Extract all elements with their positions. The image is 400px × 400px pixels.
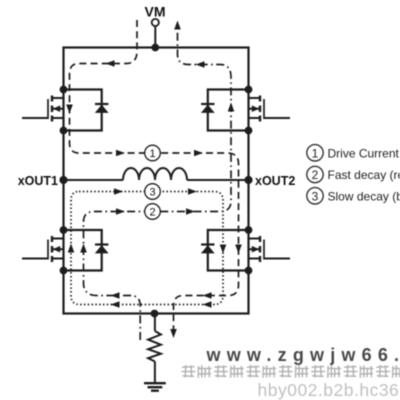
svg-text:1: 1: [149, 148, 155, 160]
svg-text:xOUT1: xOUT1: [18, 174, 58, 188]
node Q2 source dot: [245, 127, 253, 135]
ground: [144, 383, 166, 391]
svg-text:2: 2: [149, 207, 155, 219]
node xOUT1 dot: [59, 176, 67, 184]
transistor Q2 (upper-right NMOS): [249, 96, 291, 122]
node Q3 source dot: [60, 267, 68, 275]
wire path 3 slow decay loop (dotted): [71, 192, 223, 305]
wire resistor to ground: [154, 362, 156, 384]
svg-text:Slow decay (brake): Slow decay (brake): [328, 189, 400, 203]
svg-text:www.zgwjw66.: www.zgwjw66.: [206, 345, 400, 365]
node label circled 3 on slow decay path: [145, 184, 161, 200]
node bottom-center junction: [151, 310, 159, 318]
svg-text:xOUT2: xOUT2: [255, 174, 295, 188]
node xOUT2 dot: [244, 176, 252, 184]
node Q4 drain dot: [245, 226, 253, 234]
svg-text:VM: VM: [145, 4, 166, 20]
H-bridge outer box wire: [64, 48, 249, 314]
svg-text:hby002.b2b.hc360: hby002.b2b.hc360: [258, 380, 400, 400]
legend item 3: [307, 188, 323, 204]
svg-text:3: 3: [312, 189, 319, 203]
wire xOUT1 to winding: [64, 179, 124, 181]
svg-text:Drive Current: Drive Current: [328, 146, 400, 160]
diode D4 body-diode loop (lower-right): [208, 230, 249, 271]
node Q1 source dot: [60, 127, 68, 135]
svg-text:2: 2: [312, 168, 319, 182]
diode D1 body-diode loop (upper-left): [64, 90, 102, 131]
resistor Rsense: [148, 331, 161, 362]
wire path 1 drive current (dashed): [70, 20, 239, 330]
node Q2 drain dot: [245, 86, 253, 94]
diode D2 body-diode loop (upper-right): [208, 90, 249, 131]
inductor L1 motor winding: [123, 168, 187, 180]
legend item 1: [307, 145, 323, 161]
svg-text:3: 3: [149, 187, 155, 199]
node label circled 2 on fast decay path: [145, 204, 161, 220]
transistor Q4 (lower-right NMOS): [249, 236, 291, 262]
svg-text:Fast decay (reverse): Fast decay (reverse): [328, 168, 400, 182]
legend item 2: [307, 166, 323, 182]
node Q3 drain dot: [60, 226, 68, 234]
node Q4 source dot: [245, 267, 253, 275]
diode D3 body-diode loop (lower-left): [64, 230, 102, 271]
VM terminal circle: [152, 19, 159, 26]
wire winding to xOUT2: [187, 179, 249, 181]
svg-text:1: 1: [312, 146, 319, 160]
transistor Q3 (lower-left NMOS): [22, 236, 64, 262]
node Q1 drain dot: [60, 86, 68, 94]
node VM junction on top rail: [151, 44, 159, 52]
wire VM terminal to top rail: [154, 26, 156, 47]
transistor Q1 (upper-left NMOS): [22, 96, 64, 122]
node label circled 1 on drive path: [145, 145, 161, 161]
wire path 2 fast decay (dash-dot): [84, 28, 232, 340]
wire node to resistor: [154, 314, 156, 332]
